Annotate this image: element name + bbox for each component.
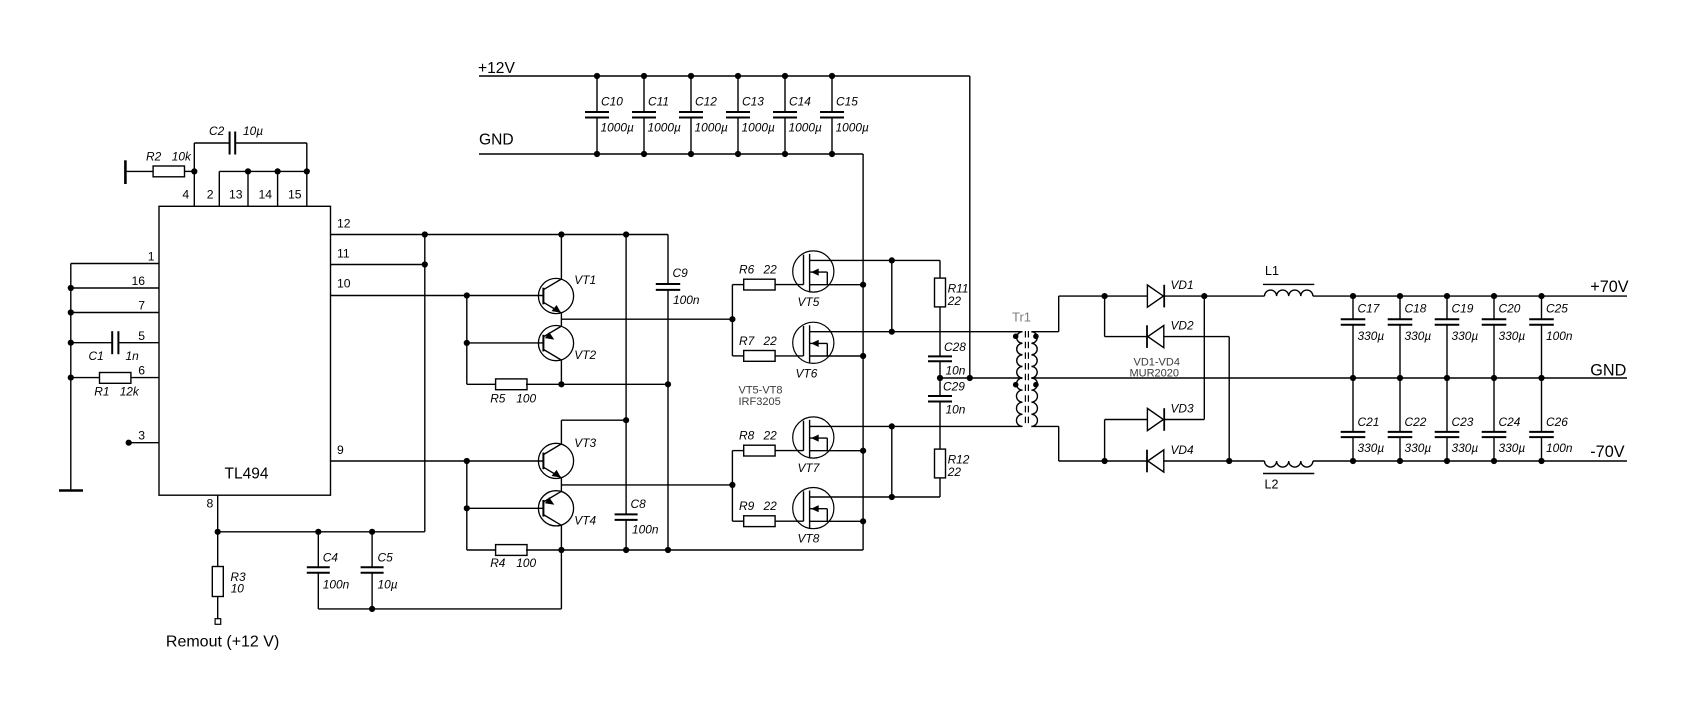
svg-text:1000µ: 1000µ bbox=[789, 120, 822, 134]
wire centre tap to transformer bbox=[970, 377, 1021, 379]
wire VT3/VT4 base bus bbox=[466, 461, 468, 550]
junction C23 bottom bbox=[1444, 458, 1450, 464]
wire VT6 source to ground bus bbox=[834, 355, 863, 357]
svg-text:10k: 10k bbox=[172, 149, 192, 163]
wire +12V feed down to transformer centre tap bbox=[969, 76, 971, 378]
capacitor C19 330µ bbox=[1446, 296, 1448, 319]
junction VT1 collector at drive bus bbox=[558, 231, 564, 237]
wire GND rail right extension bbox=[1353, 377, 1627, 379]
capacitor C15 1000µ bbox=[831, 76, 833, 112]
junction C5 bottom bbox=[369, 606, 375, 612]
pin 15 bbox=[306, 171, 308, 206]
svg-text:6: 6 bbox=[138, 364, 145, 378]
junction C10 top bbox=[594, 73, 600, 79]
svg-text:C29: C29 bbox=[943, 380, 965, 394]
transformer Tr1 secondary winding bbox=[1031, 332, 1037, 378]
resistor R12 22 bbox=[935, 449, 946, 478]
wire secondary top to VD1 row bbox=[1031, 331, 1058, 333]
svg-text:R4: R4 bbox=[490, 556, 506, 570]
wire VT7-VT8 drain link bbox=[891, 426, 893, 497]
wire VT4 base bbox=[467, 507, 544, 509]
pin 10 wire to VT1 base bbox=[331, 295, 544, 297]
resistor R11 22 bbox=[939, 260, 941, 278]
junction C9 at gate-return bus bbox=[665, 381, 671, 387]
junction C26 bottom bbox=[1538, 458, 1544, 464]
svg-text:16: 16 bbox=[131, 274, 145, 288]
wire riser pin8-pin11-pin12 bbox=[424, 235, 426, 532]
svg-text:15: 15 bbox=[288, 188, 302, 202]
svg-text:1000µ: 1000µ bbox=[742, 120, 775, 134]
transistor VT5 IRF3205 bbox=[793, 251, 834, 292]
svg-text:1000µ: 1000µ bbox=[601, 120, 634, 134]
wire VD3 row left bbox=[1105, 419, 1148, 421]
capacitor C24 330µ bbox=[1493, 378, 1495, 432]
svg-text:C12: C12 bbox=[695, 95, 717, 109]
svg-text:TL494: TL494 bbox=[225, 466, 269, 483]
svg-text:R7: R7 bbox=[739, 334, 755, 348]
svg-text:10µ: 10µ bbox=[243, 124, 263, 138]
junction VT7 source bbox=[860, 448, 866, 454]
capacitor C12 1000µ bbox=[690, 76, 692, 112]
junction VT6 source bbox=[860, 353, 866, 359]
svg-text:4: 4 bbox=[182, 188, 189, 202]
svg-text:C26: C26 bbox=[1546, 415, 1568, 429]
junction VT2 base bbox=[464, 340, 470, 346]
capacitor C22 330µ bbox=[1399, 378, 1401, 432]
transistor VT4 bbox=[538, 491, 573, 526]
wire +12V rail bbox=[479, 75, 970, 77]
svg-text:R6: R6 bbox=[739, 263, 755, 277]
svg-text:C23: C23 bbox=[1452, 415, 1474, 429]
junction C19 bottom bbox=[1444, 375, 1450, 381]
junction pin10/base bus bbox=[464, 292, 470, 298]
wire VD2 cathode riser bbox=[1104, 296, 1106, 337]
svg-text:C11: C11 bbox=[648, 95, 669, 109]
junction VT1/VT2 output to R6/R7 bbox=[729, 316, 735, 322]
wire C28 to centre node bbox=[939, 361, 941, 378]
svg-text:5: 5 bbox=[138, 329, 145, 343]
svg-text:330µ: 330µ bbox=[1358, 329, 1385, 343]
wire VT8 drain to R12 bbox=[831, 496, 940, 498]
svg-text:R2: R2 bbox=[146, 149, 162, 163]
svg-text:11: 11 bbox=[337, 247, 350, 261]
wire C4/C5 bottom return bbox=[318, 608, 561, 610]
junction VD1/VD3 cathodes bbox=[1201, 293, 1207, 299]
capacitor C8 100n bbox=[625, 235, 627, 515]
wire secondary bottom to VD4 row bbox=[1031, 425, 1058, 427]
junction VT4 base bbox=[464, 505, 470, 511]
capacitor C14 1000µ bbox=[784, 76, 786, 112]
svg-text:22: 22 bbox=[763, 334, 778, 348]
wire R8/R9 split bbox=[731, 451, 733, 522]
svg-text:C18: C18 bbox=[1405, 301, 1427, 315]
wire VT2 base bbox=[467, 342, 544, 344]
svg-text:330µ: 330µ bbox=[1358, 441, 1385, 455]
svg-text:C25: C25 bbox=[1546, 301, 1568, 315]
capacitor C21 330µ bbox=[1352, 378, 1354, 432]
junction VT5 drain / paralleling link bbox=[889, 257, 895, 263]
svg-text:10n: 10n bbox=[946, 402, 966, 416]
junction VT8 source bbox=[860, 518, 866, 524]
junction C13 top bbox=[735, 73, 741, 79]
junction VT6 drain bbox=[889, 329, 895, 335]
wire VT1/VT2 base bus bbox=[466, 296, 468, 385]
svg-text:R8: R8 bbox=[739, 428, 755, 442]
svg-text:VT4: VT4 bbox=[574, 513, 596, 527]
svg-text:100n: 100n bbox=[323, 578, 350, 592]
wire VT7 drain to transformer primary bottom bbox=[831, 425, 1023, 427]
wire return riser to VT4 collector node bbox=[560, 550, 562, 609]
wire VT1 collector bbox=[560, 235, 562, 279]
junction VD2/VD4 anodes bbox=[1226, 458, 1232, 464]
wire centre node to +12V feed bbox=[940, 377, 970, 379]
junction pin14 tie bbox=[275, 168, 281, 174]
resistor R8 22 bbox=[732, 450, 743, 452]
svg-text:VD3: VD3 bbox=[1171, 402, 1195, 416]
capacitor C10 1000µ bbox=[596, 76, 598, 112]
svg-text:100: 100 bbox=[516, 556, 536, 570]
pin 9 wire to VT3 base bbox=[331, 460, 544, 462]
svg-text:Remout (+12 V): Remout (+12 V) bbox=[166, 633, 279, 650]
wire C9 branch to ground bus bbox=[667, 384, 669, 550]
junction C18 top bbox=[1397, 293, 1403, 299]
svg-text:22: 22 bbox=[947, 465, 962, 479]
svg-text:IRF3205: IRF3205 bbox=[739, 396, 781, 408]
junction VT4 collector bbox=[558, 547, 564, 553]
svg-text:100n: 100n bbox=[1546, 329, 1573, 343]
wire VD4 anode to L2 bbox=[1164, 460, 1265, 462]
wire R2 to pin4 node bbox=[185, 170, 195, 172]
svg-text:1000µ: 1000µ bbox=[648, 120, 681, 134]
junction C21 bottom bbox=[1350, 458, 1356, 464]
junction C10 bottom bbox=[594, 151, 600, 157]
svg-text:14: 14 bbox=[258, 188, 272, 202]
junction C17 bottom bbox=[1350, 375, 1356, 381]
svg-text:Tr1: Tr1 bbox=[1012, 310, 1031, 325]
junction C11 bottom bbox=[641, 151, 647, 157]
svg-text:-70V: -70V bbox=[1590, 443, 1624, 461]
svg-text:VT2: VT2 bbox=[574, 348, 596, 362]
capacitor C2 10µ bbox=[193, 143, 195, 171]
svg-text:C8: C8 bbox=[631, 497, 647, 511]
svg-text:C14: C14 bbox=[789, 95, 811, 109]
junction C14 bottom bbox=[782, 151, 788, 157]
svg-text:1: 1 bbox=[148, 250, 155, 264]
wire VT1/VT2 emitter node to R6/R7 bbox=[560, 313, 562, 326]
svg-text:3: 3 bbox=[138, 429, 145, 443]
svg-text:VD2: VD2 bbox=[1171, 319, 1195, 333]
svg-text:100n: 100n bbox=[632, 523, 659, 537]
svg-text:12k: 12k bbox=[120, 384, 140, 398]
svg-text:+70V: +70V bbox=[1590, 278, 1628, 296]
svg-text:VT1: VT1 bbox=[574, 273, 596, 287]
pin 1 wire bbox=[71, 263, 159, 265]
svg-text:L1: L1 bbox=[1265, 264, 1279, 278]
svg-text:330µ: 330µ bbox=[1405, 329, 1432, 343]
svg-text:C13: C13 bbox=[742, 95, 764, 109]
svg-text:VT3: VT3 bbox=[574, 436, 596, 450]
capacitor C13 1000µ bbox=[737, 76, 739, 112]
junction VD4 cathode / VD3 riser bbox=[1102, 458, 1108, 464]
transistor VT1 bbox=[538, 278, 573, 313]
svg-text:7: 7 bbox=[138, 299, 145, 313]
svg-text:C24: C24 bbox=[1499, 415, 1521, 429]
svg-text:R1: R1 bbox=[94, 384, 109, 398]
svg-text:22: 22 bbox=[763, 263, 778, 277]
capacitor C17 330µ bbox=[1352, 296, 1354, 319]
junction C9 branch at ground bus bbox=[665, 547, 671, 553]
svg-text:330µ: 330µ bbox=[1452, 441, 1479, 455]
svg-text:R5: R5 bbox=[490, 391, 506, 405]
svg-text:C28: C28 bbox=[944, 340, 966, 354]
svg-text:VT8: VT8 bbox=[798, 532, 820, 546]
op-amp U1 TL494 body bbox=[159, 206, 331, 495]
diode VD3 bbox=[1147, 408, 1163, 430]
transformer Tr1 primary winding bbox=[1017, 332, 1023, 378]
svg-text:C5: C5 bbox=[378, 551, 394, 565]
wire VD3 cathode to +70V node bbox=[1164, 419, 1204, 421]
junction pin9/base bus bbox=[464, 458, 470, 464]
wire VT3/VT4 emitter node to R8/R9 bbox=[560, 478, 562, 491]
junction pin12 bus / feedback riser bbox=[422, 231, 428, 237]
capacitor C5 10µ bbox=[371, 532, 373, 567]
wire L1 to +70V rail bbox=[1313, 295, 1627, 297]
svg-text:12: 12 bbox=[337, 217, 351, 231]
wire VT3 collector to C8 node bbox=[560, 420, 562, 444]
wire R5 to gate-return bus bbox=[526, 383, 668, 385]
svg-text:R9: R9 bbox=[739, 499, 755, 513]
svg-text:330µ: 330µ bbox=[1499, 441, 1526, 455]
svg-text:100n: 100n bbox=[673, 293, 700, 307]
junction VT2 collector bbox=[558, 381, 564, 387]
junction pin13 tie bbox=[245, 168, 251, 174]
junction VT5 source bbox=[860, 282, 866, 288]
pin 11 wire bbox=[331, 264, 425, 266]
svg-text:C2: C2 bbox=[209, 124, 225, 138]
transformer phase dot secondary top bbox=[1033, 334, 1039, 340]
svg-text:22: 22 bbox=[947, 294, 962, 308]
wire C29 to R12 bbox=[939, 402, 941, 449]
svg-text:MUR2020: MUR2020 bbox=[1130, 367, 1180, 379]
svg-text:100: 100 bbox=[516, 391, 536, 405]
wire GND rail bbox=[479, 153, 863, 155]
node Remout terminal bbox=[215, 619, 221, 625]
svg-text:330µ: 330µ bbox=[1499, 329, 1526, 343]
junction VT8 drain bbox=[889, 494, 895, 500]
svg-text:1000µ: 1000µ bbox=[836, 120, 869, 134]
junction +12V feed at centre tap wire bbox=[967, 375, 973, 381]
svg-text:13: 13 bbox=[229, 188, 243, 202]
resistor R2 10k bbox=[153, 166, 184, 177]
pin 12 wire / +12V drive bus bbox=[331, 234, 669, 236]
junction VT7 drain bbox=[889, 423, 895, 429]
svg-text:330µ: 330µ bbox=[1405, 441, 1432, 455]
transformer Tr1 core bbox=[1024, 331, 1026, 427]
svg-text:C17: C17 bbox=[1358, 301, 1380, 315]
wire +70V row left bbox=[1059, 295, 1148, 297]
junction C22 bottom bbox=[1397, 458, 1403, 464]
junction C20 top bbox=[1491, 293, 1497, 299]
wire MOSFET source/ground bus bbox=[862, 154, 864, 550]
pin 3 stub wire bbox=[129, 442, 159, 444]
junction VT3 collector at C8 column bbox=[623, 417, 629, 423]
svg-text:22: 22 bbox=[763, 499, 778, 513]
pin 4 bbox=[193, 171, 195, 206]
svg-text:100n: 100n bbox=[1546, 441, 1573, 455]
wire R6/R7 split bbox=[731, 285, 733, 356]
svg-text:10n: 10n bbox=[946, 364, 966, 378]
junction pin8/R3 bbox=[215, 529, 221, 535]
transformer phase dot secondary lower bbox=[1033, 382, 1039, 388]
capacitor C25 100n bbox=[1541, 296, 1543, 319]
node pin3 terminal dot bbox=[126, 440, 132, 446]
junction C12 top bbox=[688, 73, 694, 79]
transformer phase dot primary lower bbox=[1013, 382, 1019, 388]
capacitor C9 100n bbox=[667, 235, 669, 285]
wire pin8 bottom bus bbox=[218, 531, 425, 533]
wire pins 2-13-14-15 tie bbox=[219, 170, 306, 172]
transistor VT6 IRF3205 bbox=[793, 322, 834, 363]
wire driver ground bus bbox=[526, 549, 863, 551]
junction C8 bottom at ground bus bbox=[623, 547, 629, 553]
resistor R3 10 bbox=[217, 532, 219, 567]
wire VT5 drain to R11 bbox=[831, 259, 940, 261]
junction VT3/VT4 output to R8/R9 bbox=[729, 482, 735, 488]
svg-text:C19: C19 bbox=[1452, 301, 1474, 315]
capacitor C28 10n bbox=[928, 355, 952, 357]
pin 2 bbox=[218, 171, 220, 206]
pin 8 bbox=[217, 495, 219, 532]
wire VT5 source to ground bus bbox=[834, 284, 863, 286]
resistor R7 22 bbox=[732, 355, 743, 357]
wire -70V row left bbox=[1059, 460, 1147, 462]
wire terminal to R2 bbox=[127, 170, 153, 172]
wire VT7 source to ground bus bbox=[834, 450, 863, 452]
svg-text:10: 10 bbox=[337, 277, 351, 291]
junction pin7 on left bus bbox=[68, 309, 74, 315]
capacitor C4 100n bbox=[317, 532, 319, 567]
terminal bar at R2 left bbox=[124, 160, 127, 184]
svg-text:L2: L2 bbox=[1265, 477, 1279, 491]
junction VD1 anode / VD2 cathode riser bbox=[1102, 293, 1108, 299]
junction C11 top bbox=[641, 73, 647, 79]
diode VD4 bbox=[1146, 450, 1148, 473]
capacitor C18 330µ bbox=[1399, 296, 1401, 319]
pin 7 wire bbox=[71, 312, 159, 314]
transistor VT2 bbox=[538, 326, 573, 361]
junction pin16 on left bus bbox=[68, 285, 74, 291]
capacitor C23 330µ bbox=[1446, 378, 1448, 432]
junction C17 top bbox=[1350, 293, 1356, 299]
node pin4/R2/C2 junction bbox=[191, 168, 197, 174]
junction C4 top bbox=[315, 529, 321, 535]
wire VD1 cathode to L1 bbox=[1164, 295, 1264, 297]
svg-text:+12V: +12V bbox=[478, 60, 515, 77]
svg-text:8: 8 bbox=[207, 497, 214, 511]
svg-text:2: 2 bbox=[207, 188, 214, 202]
wire VT4 collector to ground bus bbox=[560, 525, 562, 550]
junction pin11 / feedback riser bbox=[422, 261, 428, 267]
resistor R4 100 bbox=[467, 549, 497, 551]
svg-text:VD4: VD4 bbox=[1171, 443, 1195, 457]
junction pin15/C2 tie bbox=[304, 168, 310, 174]
svg-text:C10: C10 bbox=[601, 95, 623, 109]
transformer phase dot primary top bbox=[1013, 334, 1019, 340]
capacitor C1 1n on pin 5 bbox=[71, 342, 112, 344]
svg-text:VT5-VT8: VT5-VT8 bbox=[739, 385, 783, 397]
wire VT6 drain to transformer primary top bbox=[831, 331, 1023, 333]
svg-text:VD1: VD1 bbox=[1171, 278, 1194, 292]
junction C19 top bbox=[1444, 293, 1450, 299]
svg-text:C15: C15 bbox=[836, 95, 858, 109]
capacitor C11 1000µ bbox=[643, 76, 645, 112]
svg-text:VT6: VT6 bbox=[796, 366, 818, 380]
junction C12 bottom bbox=[688, 151, 694, 157]
wire L2 to -70V rail bbox=[1313, 460, 1627, 462]
inductor L2 bbox=[1265, 461, 1313, 467]
capacitor C29 10n bbox=[939, 378, 941, 396]
pin 14 bbox=[277, 171, 279, 206]
capacitor C20 330µ bbox=[1493, 296, 1495, 319]
svg-text:C22: C22 bbox=[1405, 415, 1427, 429]
junction C15 bottom bbox=[829, 151, 835, 157]
junction snubber centre bbox=[937, 375, 943, 381]
svg-text:GND: GND bbox=[1590, 361, 1626, 379]
diode VD1 bbox=[1147, 285, 1163, 307]
svg-text:1000µ: 1000µ bbox=[695, 120, 728, 134]
junction C20 bottom bbox=[1491, 375, 1497, 381]
junction pin6 on left bus bbox=[68, 375, 74, 381]
resistor R9 22 bbox=[732, 520, 743, 522]
resistor R6 22 bbox=[732, 284, 743, 286]
svg-text:330µ: 330µ bbox=[1452, 329, 1479, 343]
svg-text:1n: 1n bbox=[126, 349, 140, 363]
svg-text:22: 22 bbox=[763, 428, 778, 442]
transistor VT7 IRF3205 bbox=[793, 417, 834, 458]
junction C24 bottom bbox=[1491, 458, 1497, 464]
inductor L1 bbox=[1265, 290, 1313, 296]
junction C5 top bbox=[369, 529, 375, 535]
wire R11 to C28 bbox=[939, 307, 941, 357]
pin 16 wire bbox=[71, 287, 159, 289]
wire VT2 collector to return bus bbox=[560, 360, 562, 384]
wire VD2 anode to L2 node bbox=[1164, 336, 1230, 338]
resistor R5 100 bbox=[467, 383, 497, 385]
junction C25 bottom bbox=[1538, 375, 1544, 381]
svg-text:9: 9 bbox=[337, 443, 344, 457]
wire R12 to VT8 drain wire bbox=[939, 478, 941, 497]
wire VT8 source to ground bus bbox=[834, 520, 863, 522]
wire secondary centre tap to GND rail bbox=[1031, 377, 1353, 379]
svg-text:C21: C21 bbox=[1358, 415, 1380, 429]
junction C15 top bbox=[829, 73, 835, 79]
capacitor C26 100n bbox=[1541, 378, 1543, 432]
pin 13 bbox=[247, 171, 249, 206]
ground bbox=[59, 489, 83, 492]
junction C18 bottom bbox=[1397, 375, 1403, 381]
svg-text:10µ: 10µ bbox=[378, 578, 398, 592]
svg-text:VT5: VT5 bbox=[798, 295, 820, 309]
wire VD2 row left bbox=[1105, 336, 1147, 338]
junction C14 top bbox=[782, 73, 788, 79]
wire left ground bus bbox=[70, 264, 72, 491]
junction C13 bottom bbox=[735, 151, 741, 157]
svg-text:C9: C9 bbox=[673, 266, 689, 280]
junction C25 top bbox=[1538, 293, 1544, 299]
transistor VT3 bbox=[538, 443, 573, 478]
svg-text:C4: C4 bbox=[323, 551, 339, 565]
junction pin5 on left bus bbox=[68, 340, 74, 346]
